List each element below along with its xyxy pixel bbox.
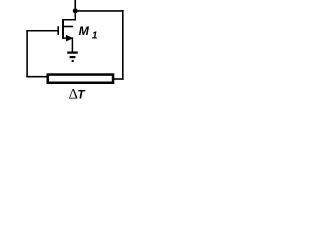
wire drain lead [63, 11, 76, 20]
transistor M1 gate bar [57, 26, 59, 35]
svg-text:1: 1 [92, 31, 98, 42]
wire left connector to box [26, 76, 48, 78]
ground [67, 53, 78, 61]
wire gate lead [26, 30, 57, 32]
wire top stub [74, 0, 76, 11]
node A junction dot [73, 8, 78, 13]
wire bulk lead [63, 26, 74, 28]
svg-text:M: M [79, 24, 90, 38]
wire right vertical [122, 10, 124, 80]
transistor M1 channel bar [62, 19, 64, 38]
wire source lead [63, 38, 73, 52]
wire top horizontal [75, 10, 123, 12]
box ΔT (thermal element) [48, 75, 113, 83]
source arrow [66, 35, 74, 42]
wire left vertical [26, 31, 28, 78]
wire right connector to box [113, 78, 124, 80]
